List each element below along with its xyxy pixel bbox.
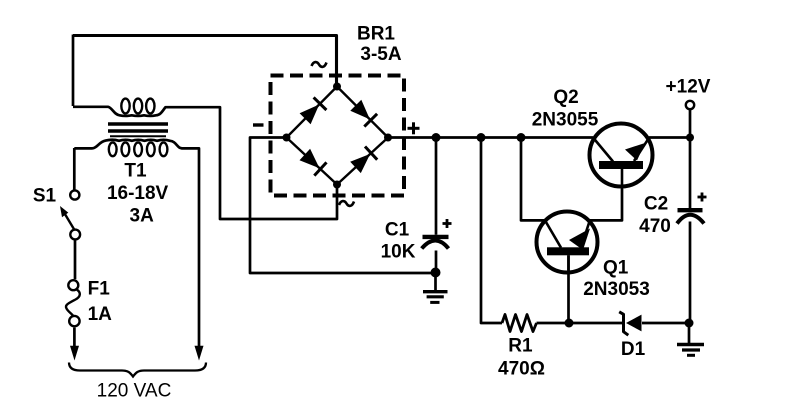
svg-text:2N3055: 2N3055	[532, 109, 599, 130]
svg-text:BR1: BR1	[357, 24, 395, 45]
svg-text:470Ω: 470Ω	[498, 358, 545, 379]
svg-text:+12V: +12V	[666, 76, 711, 97]
svg-text:1A: 1A	[88, 304, 113, 325]
svg-text:470: 470	[639, 216, 671, 237]
svg-text:3A: 3A	[130, 206, 155, 227]
svg-text:2N3053: 2N3053	[583, 279, 650, 300]
svg-text:C2: C2	[644, 194, 668, 215]
svg-text:10K: 10K	[381, 242, 416, 263]
svg-text:C1: C1	[385, 220, 410, 241]
svg-text:Q1: Q1	[603, 258, 629, 279]
svg-text:120 VAC: 120 VAC	[97, 381, 172, 402]
svg-text:R1: R1	[508, 335, 533, 356]
svg-text:16-18V: 16-18V	[107, 183, 169, 204]
svg-text:F1: F1	[88, 279, 111, 300]
svg-text:Q2: Q2	[553, 87, 578, 108]
svg-text:D1: D1	[621, 339, 646, 360]
svg-text:S1: S1	[33, 186, 57, 207]
svg-text:T1: T1	[124, 161, 147, 182]
svg-text:3-5A: 3-5A	[360, 44, 401, 65]
